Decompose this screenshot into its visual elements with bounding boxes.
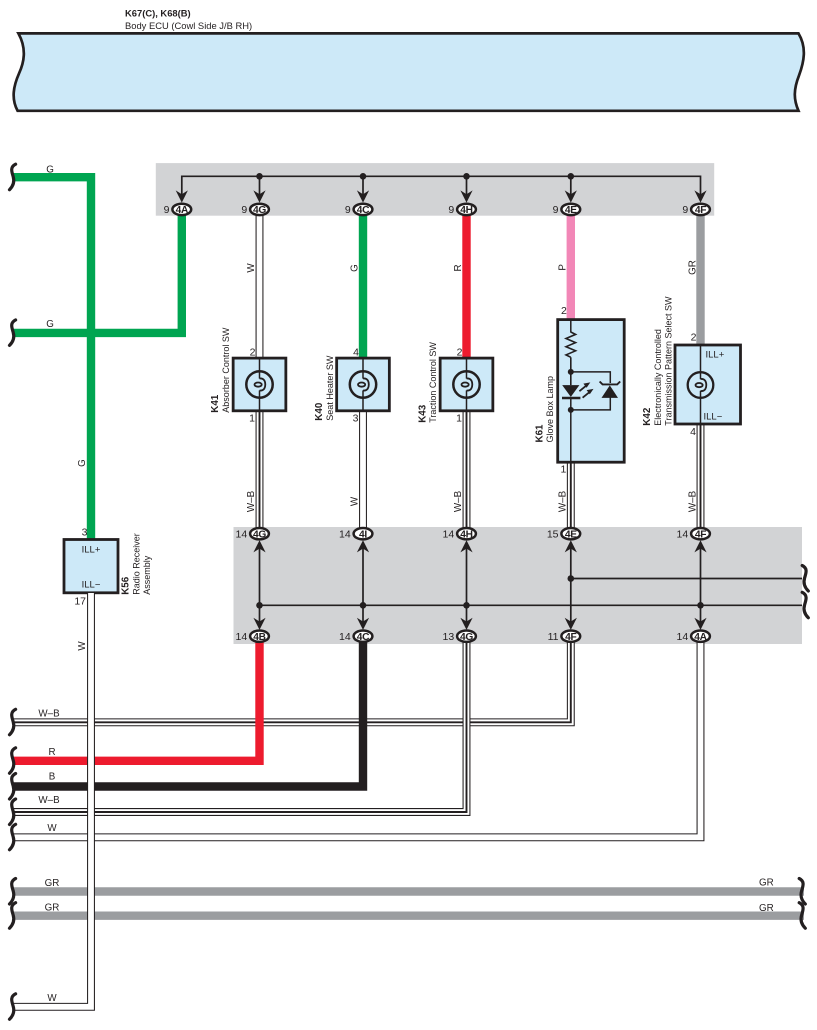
wire middle band main bus to right sheet bbox=[260, 604, 803, 606]
node junction block band middle bbox=[234, 527, 803, 644]
svg-text:4A: 4A bbox=[694, 632, 707, 643]
wire middle band upper bus to right sheet bbox=[571, 578, 802, 580]
svg-text:4G: 4G bbox=[253, 205, 266, 216]
svg-text:2: 2 bbox=[561, 305, 567, 317]
svg-text:Electronically Controlled: Electronically Controlled bbox=[653, 329, 663, 426]
svg-text:K43: K43 bbox=[417, 404, 428, 423]
svg-text:4I: 4I bbox=[359, 529, 367, 540]
svg-text:4: 4 bbox=[690, 426, 696, 438]
node 4G mid top bbox=[250, 528, 269, 539]
wire G 4C to K40 bbox=[359, 213, 367, 359]
svg-text:W–B: W–B bbox=[38, 708, 60, 719]
svg-text:Assembly: Assembly bbox=[142, 555, 152, 595]
svg-text:GR: GR bbox=[45, 878, 60, 889]
svg-text:W–B: W–B bbox=[557, 490, 568, 512]
svg-text:GR: GR bbox=[759, 903, 774, 914]
svg-text:2: 2 bbox=[691, 332, 697, 344]
svg-text:11: 11 bbox=[548, 631, 559, 643]
wire W-B K43 to 4H bbox=[463, 410, 471, 529]
svg-text:4E: 4E bbox=[565, 205, 577, 216]
svg-text:1: 1 bbox=[249, 413, 255, 425]
node 4E mid top bbox=[561, 528, 580, 539]
wire W-B 4F to left edge bbox=[13, 641, 571, 722]
svg-text:K42: K42 bbox=[642, 407, 653, 426]
svg-text:4C: 4C bbox=[357, 205, 370, 216]
svg-text:K67(C), K68(B): K67(C), K68(B) bbox=[125, 8, 191, 19]
svg-text:W–B: W–B bbox=[687, 490, 698, 512]
svg-text:GR: GR bbox=[759, 877, 774, 888]
node off-page breaks left bbox=[10, 164, 16, 190]
svg-text:1: 1 bbox=[560, 463, 566, 475]
svg-text:R: R bbox=[453, 264, 464, 271]
node off-page breaks right bbox=[802, 566, 808, 592]
LED emission arrows bbox=[579, 385, 586, 391]
svg-text:17: 17 bbox=[74, 596, 86, 608]
node 4C top bbox=[354, 204, 373, 215]
svg-text:4F: 4F bbox=[695, 205, 706, 216]
svg-text:14: 14 bbox=[339, 631, 351, 643]
svg-text:14: 14 bbox=[677, 631, 689, 643]
svg-text:G: G bbox=[350, 264, 361, 272]
svg-text:K61: K61 bbox=[535, 424, 546, 443]
wire W-B K42 to 4F bbox=[697, 423, 705, 529]
svg-text:W–B: W–B bbox=[246, 490, 257, 512]
svg-text:K56: K56 bbox=[121, 576, 132, 595]
junction arrows middle band bbox=[253, 540, 265, 552]
svg-text:14: 14 bbox=[339, 528, 351, 540]
node junction dot K61 top bbox=[568, 369, 574, 375]
wire branch to zener in K61 bbox=[571, 372, 611, 410]
svg-text:4H: 4H bbox=[460, 205, 472, 216]
node 4B mid bottom bbox=[250, 631, 269, 642]
svg-text:14: 14 bbox=[677, 528, 689, 540]
svg-text:W: W bbox=[350, 496, 361, 506]
svg-text:4F: 4F bbox=[565, 632, 576, 643]
node 4E top bbox=[561, 204, 580, 215]
svg-text:4H: 4H bbox=[460, 529, 472, 540]
node 4F mid top bbox=[691, 528, 710, 539]
svg-text:W: W bbox=[77, 641, 88, 651]
svg-text:4G: 4G bbox=[253, 529, 266, 540]
wire GR bus upper bbox=[13, 887, 804, 895]
node 4H top bbox=[457, 204, 476, 215]
svg-text:14: 14 bbox=[236, 528, 248, 540]
node 4C mid bottom bbox=[354, 631, 373, 642]
svg-text:ILL−: ILL− bbox=[82, 580, 101, 591]
svg-text:Glove Box Lamp: Glove Box Lamp bbox=[545, 376, 555, 443]
svg-text:Transmission Pattern Select SW: Transmission Pattern Select SW bbox=[664, 296, 674, 426]
svg-text:14: 14 bbox=[236, 631, 248, 643]
node 4F top bbox=[691, 204, 710, 215]
svg-text:W: W bbox=[47, 993, 57, 1004]
svg-text:GR: GR bbox=[687, 260, 698, 275]
LED D1 in K61 bbox=[562, 385, 579, 397]
svg-text:4A: 4A bbox=[176, 205, 189, 216]
node 4A mid bottom bbox=[691, 631, 710, 642]
svg-text:2: 2 bbox=[250, 347, 256, 359]
node 4G top bbox=[250, 204, 269, 215]
Seat Heater SW K40 bbox=[337, 358, 390, 411]
wire W K56 to left edge bbox=[13, 593, 91, 1007]
wire middle band column links bbox=[259, 548, 261, 623]
wire P 4E to K61 bbox=[567, 213, 575, 321]
node Body ECU bus band bbox=[14, 33, 804, 110]
wire W 4G to K41 bbox=[256, 213, 264, 359]
junction arrows top band bbox=[176, 190, 188, 202]
svg-text:1: 1 bbox=[456, 413, 462, 425]
svg-text:P: P bbox=[557, 264, 568, 271]
svg-text:W–B: W–B bbox=[453, 490, 464, 512]
svg-text:4C: 4C bbox=[357, 632, 370, 643]
svg-text:W–B: W–B bbox=[38, 795, 60, 806]
wire W 4A to left edge bbox=[13, 641, 701, 837]
svg-text:9: 9 bbox=[241, 204, 247, 216]
node 4A top bbox=[172, 204, 191, 215]
svg-text:2: 2 bbox=[457, 347, 463, 359]
svg-text:14: 14 bbox=[443, 528, 455, 540]
svg-text:Radio Receiver: Radio Receiver bbox=[132, 533, 142, 595]
svg-text:9: 9 bbox=[164, 204, 170, 216]
svg-text:4G: 4G bbox=[460, 632, 473, 643]
svg-text:ILL−: ILL− bbox=[704, 412, 723, 423]
svg-text:13: 13 bbox=[443, 631, 455, 643]
svg-text:K40: K40 bbox=[314, 402, 325, 421]
resistor in K61 bbox=[566, 332, 576, 357]
svg-text:3: 3 bbox=[82, 527, 88, 539]
svg-text:ILL+: ILL+ bbox=[706, 349, 725, 360]
lamp K61 Glove Box Lamp bbox=[558, 320, 625, 463]
svg-text:G: G bbox=[46, 165, 54, 176]
wire GR bus lower bbox=[13, 912, 804, 920]
switch K42 Transmission Pattern Select SW bbox=[675, 345, 741, 424]
wire G from left edge down to K56 bbox=[13, 177, 91, 541]
svg-text:9: 9 bbox=[553, 204, 559, 216]
svg-text:Seat Heater SW: Seat Heater SW bbox=[325, 355, 335, 421]
svg-text:W: W bbox=[47, 823, 57, 834]
wire R 4H to K43 bbox=[462, 213, 470, 359]
svg-text:9: 9 bbox=[448, 204, 454, 216]
wire G from 4A to left edge / down bbox=[13, 213, 182, 333]
svg-text:9: 9 bbox=[682, 204, 688, 216]
svg-text:ILL+: ILL+ bbox=[82, 544, 101, 555]
node 4F mid bottom bbox=[561, 631, 580, 642]
wire top band bus bbox=[182, 176, 701, 195]
wire B 4C to left edge bbox=[13, 641, 363, 787]
wire GR 4F to K42 bbox=[696, 213, 704, 346]
svg-text:K41: K41 bbox=[210, 394, 221, 413]
svg-text:G: G bbox=[46, 319, 54, 330]
svg-text:R: R bbox=[48, 747, 55, 758]
Absorber Control SW K41 bbox=[233, 358, 286, 411]
node 4G mid bottom bbox=[457, 631, 476, 642]
node 4I mid top bbox=[354, 528, 373, 539]
zener diode in K61 bbox=[602, 385, 619, 398]
wire W K40 to 4I bbox=[359, 410, 367, 529]
svg-text:15: 15 bbox=[547, 528, 559, 540]
wire W-B K41 to 4G bbox=[256, 410, 264, 529]
svg-text:B: B bbox=[49, 772, 56, 783]
node junction dot K61 bottom bbox=[568, 407, 574, 413]
svg-text:W: W bbox=[246, 263, 257, 273]
Traction Control SW K43 bbox=[440, 358, 493, 411]
node 4H mid top bbox=[457, 528, 476, 539]
svg-text:Absorber Control SW: Absorber Control SW bbox=[221, 327, 231, 413]
wire W-B 4G to left edge bbox=[13, 641, 467, 812]
svg-text:Traction Control SW: Traction Control SW bbox=[428, 342, 438, 423]
node junction block band top bbox=[156, 163, 714, 216]
wire R 4B to left edge bbox=[13, 641, 260, 761]
radio K56 Radio Receiver Assembly bbox=[64, 540, 118, 593]
svg-text:4E: 4E bbox=[565, 529, 577, 540]
svg-text:4: 4 bbox=[353, 347, 359, 359]
svg-text:3: 3 bbox=[353, 413, 359, 425]
svg-text:4B: 4B bbox=[253, 632, 265, 643]
svg-text:Body ECU (Cowl Side J/B RH): Body ECU (Cowl Side J/B RH) bbox=[125, 20, 252, 31]
svg-text:4F: 4F bbox=[695, 529, 706, 540]
svg-text:9: 9 bbox=[345, 204, 351, 216]
svg-text:GR: GR bbox=[45, 902, 60, 913]
svg-text:G: G bbox=[77, 459, 88, 467]
wire W-B K61 to 4E bbox=[567, 461, 575, 529]
